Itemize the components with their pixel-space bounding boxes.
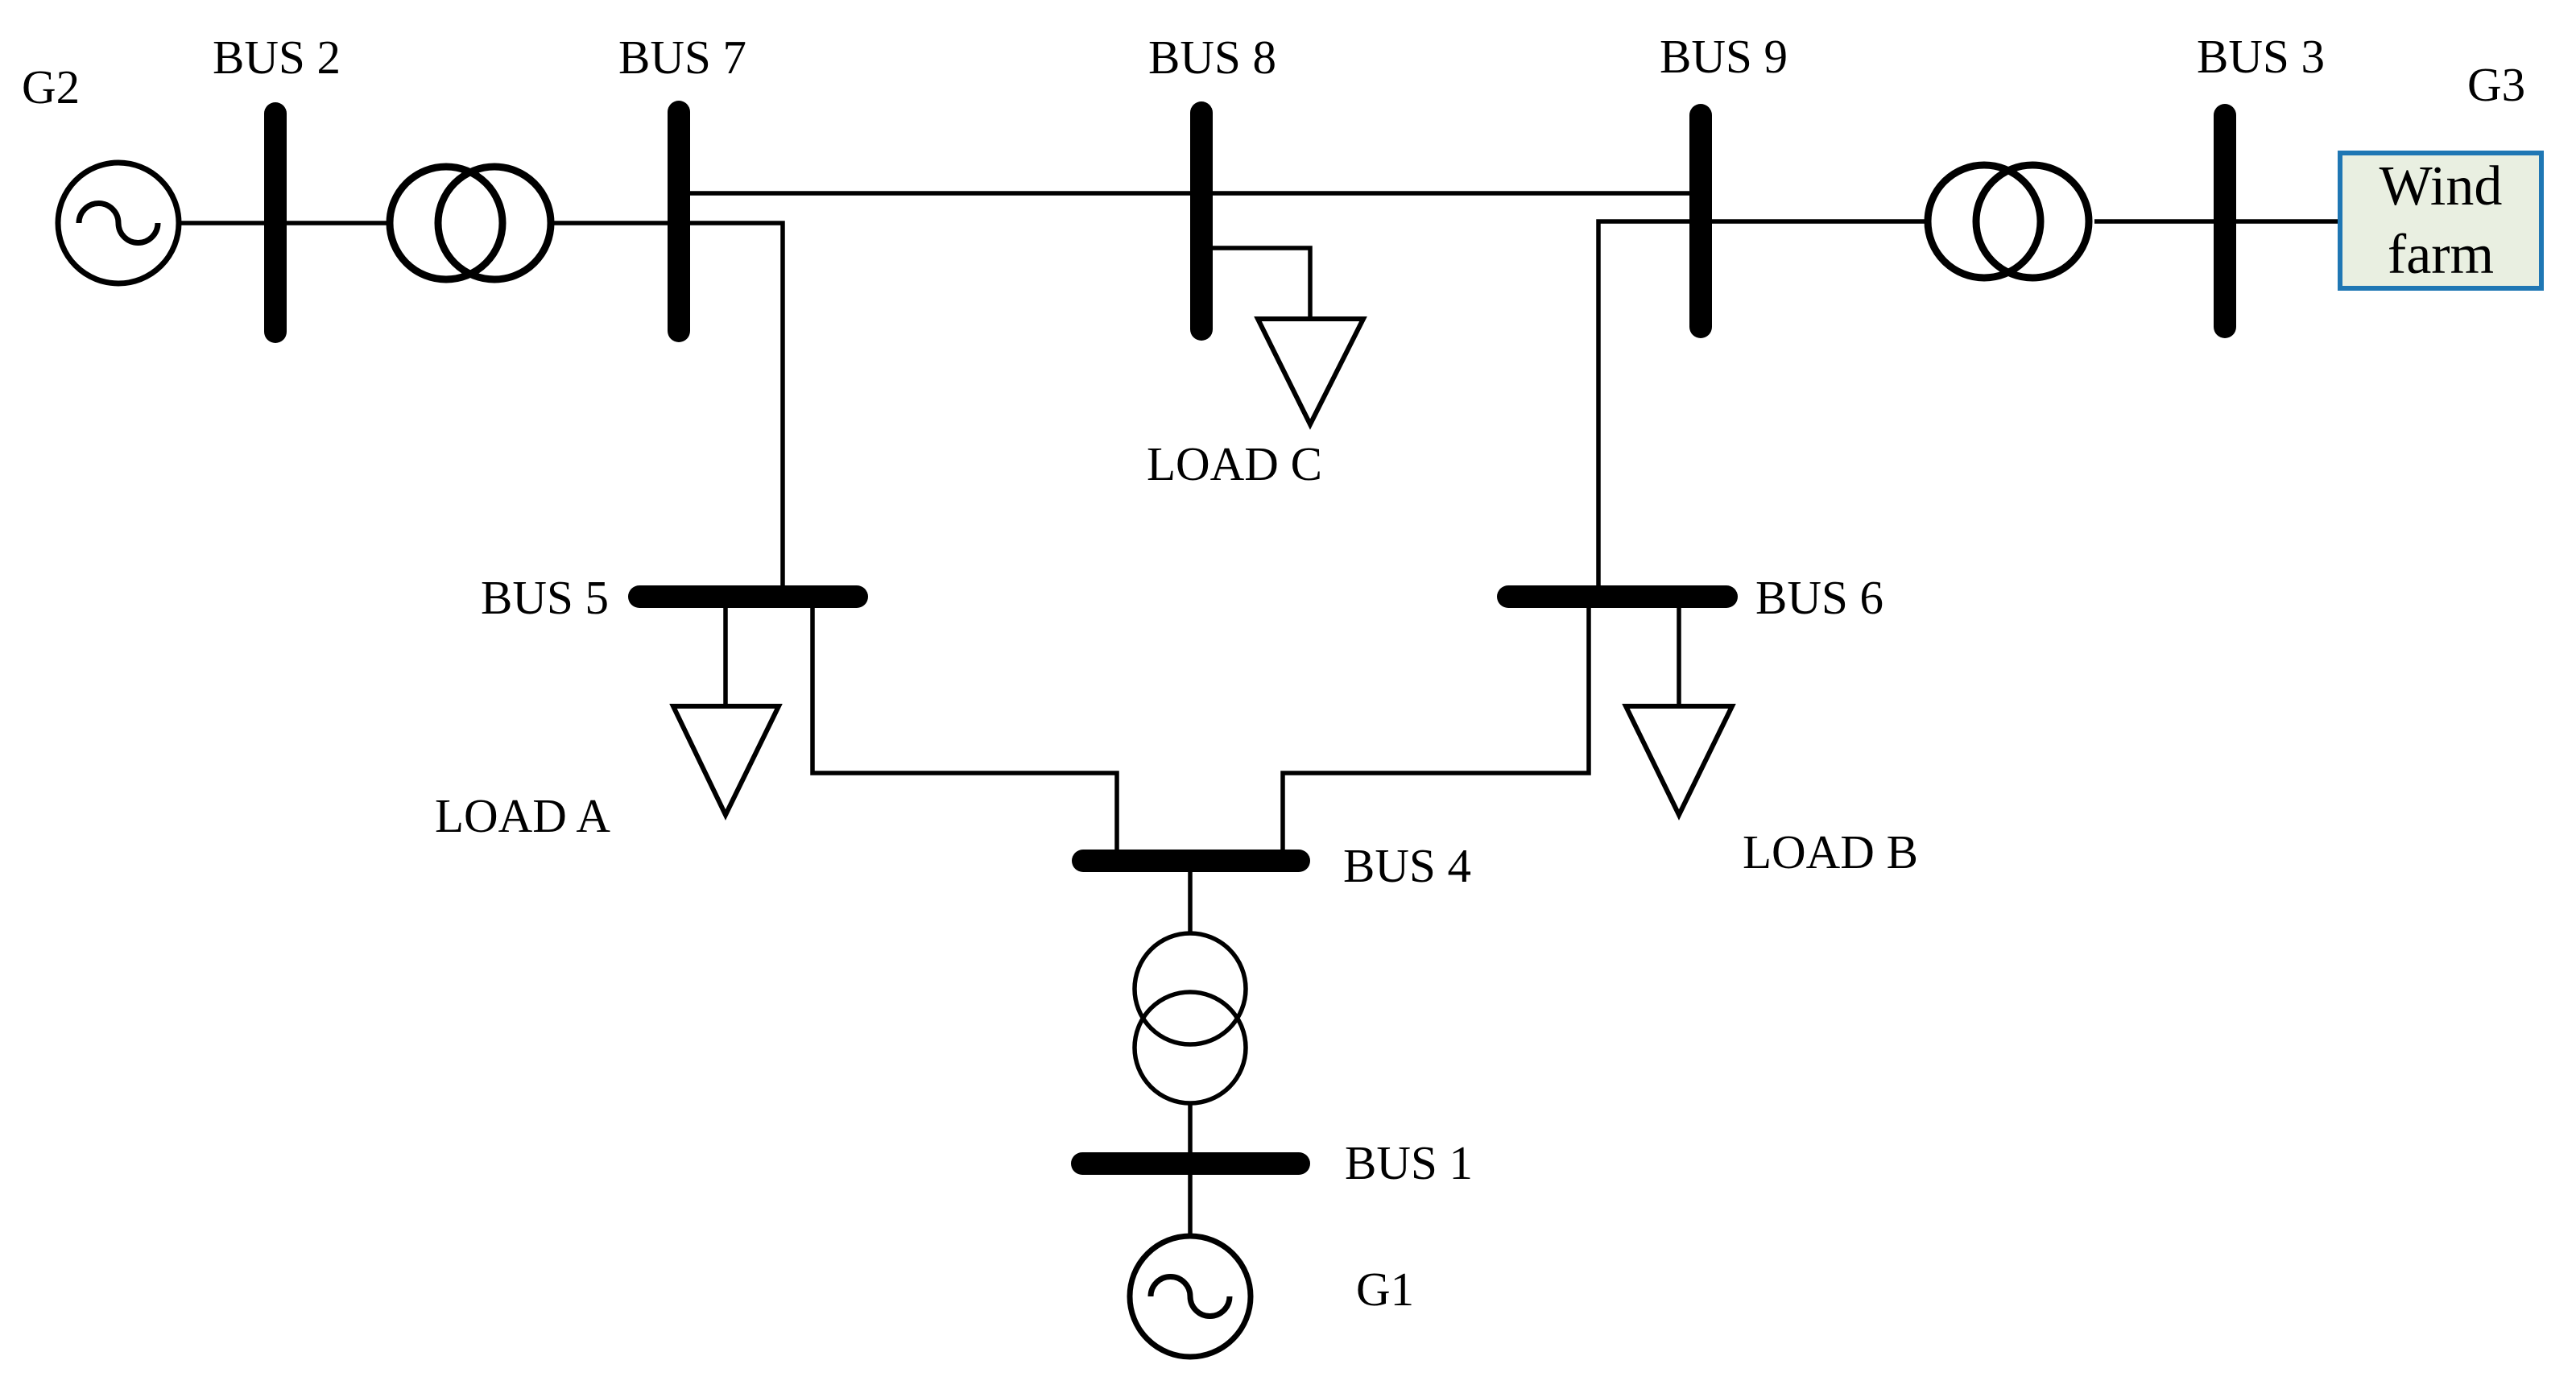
svg-text:BUS 7: BUS 7 [618,31,746,84]
svg-text:BUS 9: BUS 9 [1660,30,1788,83]
svg-text:BUS 6: BUS 6 [1755,571,1883,624]
svg-text:BUS 1: BUS 1 [1345,1136,1473,1189]
svg-text:G2: G2 [22,60,80,114]
svg-text:farm: farm [2388,224,2494,286]
svg-text:BUS 2: BUS 2 [213,31,341,84]
svg-text:Wind: Wind [2380,155,2503,217]
svg-text:LOAD A: LOAD A [435,789,610,842]
svg-text:G1: G1 [1356,1263,1414,1316]
svg-text:G3: G3 [2467,58,2525,111]
svg-text:LOAD C: LOAD C [1147,437,1322,490]
svg-text:BUS 8: BUS 8 [1148,31,1276,84]
svg-text:BUS 4: BUS 4 [1343,839,1471,892]
svg-text:LOAD B: LOAD B [1743,825,1918,879]
svg-text:BUS 3: BUS 3 [2197,30,2325,83]
svg-text:BUS 5: BUS 5 [481,571,609,624]
